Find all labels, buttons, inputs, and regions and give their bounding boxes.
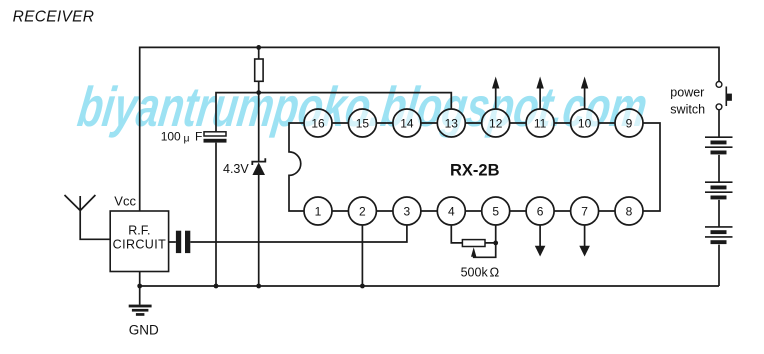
svg-text:1: 1 [315, 204, 322, 218]
svg-text:CIRCUIT: CIRCUIT [113, 237, 167, 251]
svg-text:6: 6 [537, 204, 544, 218]
svg-text:7: 7 [581, 204, 588, 218]
svg-text:switch: switch [670, 103, 705, 117]
svg-text:3: 3 [404, 204, 411, 218]
svg-text:15: 15 [356, 116, 370, 130]
svg-text:power: power [670, 86, 704, 100]
svg-text:4.3V: 4.3V [223, 162, 249, 176]
svg-text:13: 13 [445, 116, 459, 130]
svg-text:11: 11 [534, 116, 547, 130]
svg-text:R.F.: R.F. [128, 223, 150, 237]
svg-text:8: 8 [626, 204, 633, 218]
svg-text:14: 14 [400, 116, 414, 130]
svg-text:F: F [195, 129, 202, 143]
svg-text:4: 4 [448, 204, 455, 218]
svg-text:RX-2B: RX-2B [450, 162, 500, 180]
svg-text:GND: GND [129, 323, 159, 338]
svg-text:10: 10 [578, 116, 592, 130]
svg-text:RECEIVER: RECEIVER [13, 8, 95, 25]
svg-text:Vcc: Vcc [114, 193, 136, 208]
svg-text:500k: 500k [461, 265, 489, 279]
svg-text:2: 2 [359, 204, 366, 218]
svg-text:12: 12 [489, 116, 503, 130]
svg-text:μ: μ [184, 133, 190, 145]
svg-text:5: 5 [492, 204, 499, 218]
svg-text:Ω: Ω [490, 264, 500, 279]
svg-text:9: 9 [626, 116, 633, 130]
svg-text:16: 16 [311, 116, 325, 130]
svg-text:100: 100 [161, 129, 181, 143]
